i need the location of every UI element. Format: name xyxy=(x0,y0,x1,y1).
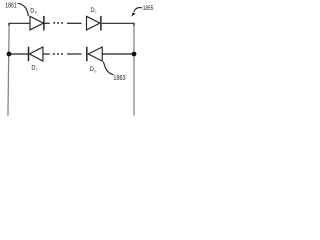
wire top row right with corner xyxy=(102,23,134,26)
wire bottom row left xyxy=(9,53,28,55)
svg-text:n: n xyxy=(94,69,96,73)
leader 1863 xyxy=(103,62,113,75)
junction node right xyxy=(132,52,137,57)
leader 1861 xyxy=(18,3,29,16)
svg-text:1: 1 xyxy=(36,68,37,72)
wire top row left with corner xyxy=(9,23,30,26)
wire bottom row right xyxy=(102,53,134,55)
diode D1 bottom-left xyxy=(29,47,43,61)
svg-text:1855: 1855 xyxy=(143,5,154,12)
svg-text:1: 1 xyxy=(95,10,96,14)
wire bottom row stub after D1 xyxy=(43,53,50,55)
junction node left xyxy=(7,52,12,57)
svg-text:1863: 1863 xyxy=(113,75,125,82)
label Dn xyxy=(90,66,97,73)
label D1 top xyxy=(91,7,97,14)
ellipsis dots top row xyxy=(53,22,63,24)
diode Dn bottom-right xyxy=(87,47,102,61)
svg-text:1861: 1861 xyxy=(5,3,16,10)
left rail wire xyxy=(8,24,9,116)
diode D1 top-right xyxy=(87,16,101,31)
diode D0 top-left xyxy=(30,16,44,31)
wire top row middle dash xyxy=(67,22,82,24)
label D0 xyxy=(30,8,37,15)
leader 1855 with arrowhead xyxy=(131,8,142,17)
svg-text:0: 0 xyxy=(35,11,37,15)
right rail wire xyxy=(133,25,135,116)
ellipsis dots bottom row xyxy=(53,53,63,55)
label D1 bottom xyxy=(31,65,37,72)
wire bottom row middle dash xyxy=(67,53,82,55)
wire top row stub after D0 xyxy=(44,22,50,24)
